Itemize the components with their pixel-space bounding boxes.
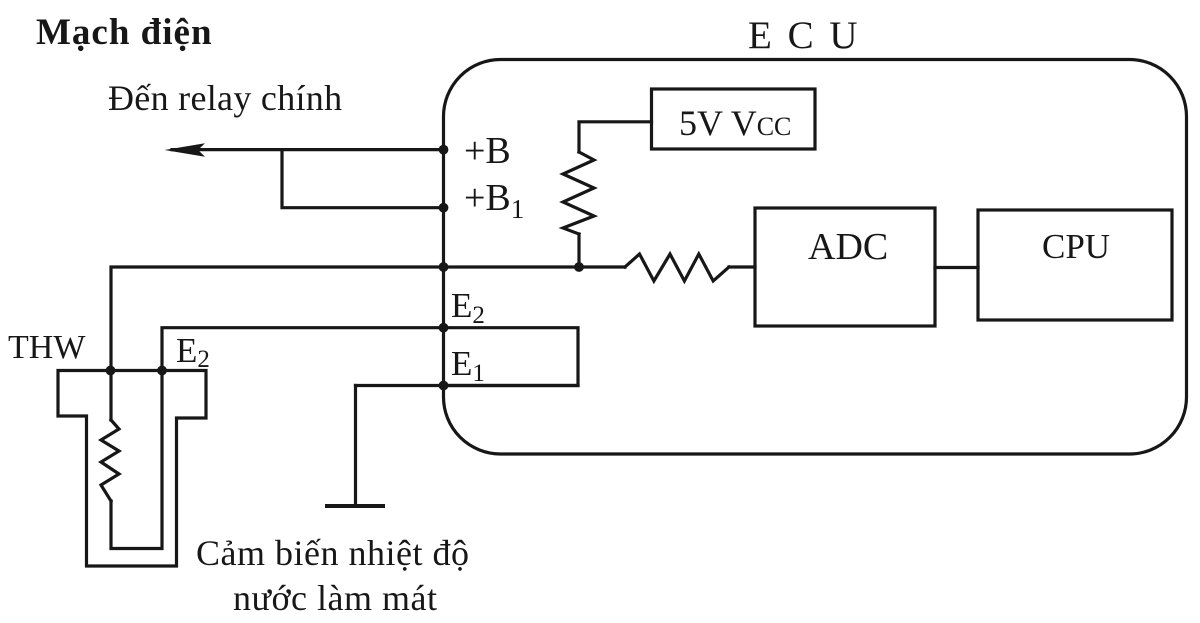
5V Vcc box — [652, 89, 816, 149]
resistor R1 vertical zigzag — [563, 152, 594, 234]
svg-text:E C U: E C U — [748, 14, 861, 57]
ground symbol — [327, 504, 383, 508]
CPU block — [978, 210, 1172, 320]
node +B1 — [439, 203, 449, 213]
node R1/R2 junction — [574, 262, 584, 272]
wire ground drop — [354, 386, 357, 507]
wire 5V Vcc to resistor R1 — [579, 122, 652, 152]
resistor R2 horizontal zigzag — [625, 254, 729, 281]
arrowhead to relay — [165, 143, 206, 157]
svg-text:Cảm biến nhiệt độ: Cảm biến nhiệt độ — [196, 533, 469, 573]
svg-text:Mạch điện: Mạch điện — [36, 12, 213, 53]
thermistor R3 lead top — [109, 371, 112, 421]
thermistor R3 zigzag — [101, 420, 119, 501]
thermistor R3 lead bottom and inner tube — [111, 371, 162, 549]
wire ADC to CPU — [935, 266, 978, 269]
node sensor right pin — [157, 366, 167, 376]
node sensor left pin — [106, 366, 116, 376]
svg-text:+B: +B — [464, 130, 511, 172]
wire E2 node to resistor R2 — [444, 265, 626, 268]
svg-text:THW: THW — [8, 329, 86, 366]
svg-text:ADC: ADC — [808, 226, 888, 268]
node E2 terminal — [439, 262, 449, 272]
ADC block — [755, 208, 935, 326]
sensor THW body outline — [58, 371, 206, 567]
wire E1 to ground — [444, 384, 579, 387]
svg-text:CPU: CPU — [1042, 227, 1110, 266]
svg-text:Đến relay chính: Đến relay chính — [108, 78, 342, 118]
wire sensor E2 to ECU E1 loop — [162, 328, 578, 386]
wire R1 bottom to E2 node — [577, 234, 580, 267]
svg-text:nước làm mát: nước làm mát — [233, 578, 438, 618]
wire +B1 branch — [282, 150, 444, 208]
ECU enclosure box U1 — [444, 60, 1187, 455]
wire +B to relay (arrow shaft) — [172, 148, 444, 151]
wire R2 to ADC — [729, 265, 755, 268]
node +B — [439, 145, 449, 155]
node E1 loop top — [439, 323, 449, 333]
wire E2 horizontal to sensor — [111, 267, 444, 371]
node ground wire — [439, 381, 449, 391]
